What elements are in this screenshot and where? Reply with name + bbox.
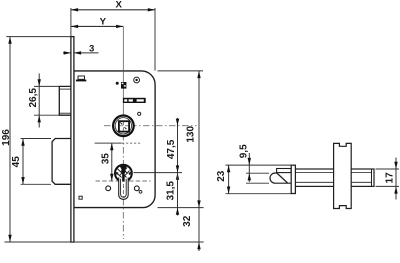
svg-text:45: 45: [11, 156, 22, 168]
dimension 9,5: [239, 144, 251, 182]
dimension 32: [182, 208, 201, 251]
svg-text:196: 196: [1, 129, 12, 146]
dimension 130: [158, 71, 204, 208]
ext line faceplate top: [226, 164, 292, 166]
svg-text:130: 130: [185, 126, 196, 143]
dimension 3: [63, 43, 99, 54]
svg-text:Y: Y: [100, 16, 107, 27]
dimension 35: [101, 143, 114, 181]
svg-text:X: X: [115, 0, 122, 11]
screw hole left: [106, 186, 111, 191]
screw hole right: [134, 186, 139, 191]
euro profile cylinder: [115, 165, 132, 200]
follower hub: [113, 116, 134, 137]
latch bolt side: [270, 169, 291, 184]
ext line latch top: [246, 172, 269, 174]
faceplate side: [291, 165, 295, 193]
screw head: [134, 77, 140, 83]
dimension 17: [376, 158, 400, 200]
adjustment slot: [123, 98, 146, 103]
dimension X (backset overall): [71, 0, 155, 71]
ext line latch bottom: [246, 182, 269, 184]
svg-text:32: 32: [182, 215, 193, 227]
small hole: [139, 190, 142, 193]
svg-text:23: 23: [216, 170, 227, 182]
latch bolt: [59, 86, 71, 115]
hidden line cylinder: [96, 180, 151, 182]
svg-text:31,5: 31,5: [166, 181, 177, 201]
ext line faceplate bottom: [226, 193, 292, 195]
screw dot: [116, 82, 119, 85]
dimension Y (backset to cylinder axis): [71, 16, 123, 28]
svg-text:17: 17: [385, 172, 396, 184]
spindle boss: [334, 143, 352, 208]
lock case body: [74, 71, 155, 208]
square hole bottom: [79, 196, 82, 199]
dimension 196: [1, 37, 204, 242]
dimension 26,5: [28, 74, 59, 128]
faceplate: [71, 37, 74, 243]
hidden edge line: [95, 142, 142, 144]
dimension 31,5: [134, 165, 183, 216]
svg-text:26,5: 26,5: [28, 88, 39, 108]
case side view: [295, 169, 374, 186]
svg-text:3: 3: [89, 43, 94, 54]
dimension 23: [216, 165, 230, 194]
latch guide tab: [76, 76, 86, 81]
svg-text:35: 35: [101, 153, 112, 165]
svg-text:47,5: 47,5: [166, 139, 177, 159]
dimension 47,5: [166, 118, 179, 181]
centerline cylinder axis: [122, 26, 124, 239]
svg-text:9,5: 9,5: [239, 144, 250, 158]
stop block: [121, 82, 126, 89]
hole: [138, 112, 141, 115]
dimension 45: [11, 139, 51, 185]
deadbolt: [52, 139, 71, 185]
centerline follower: [104, 125, 197, 127]
